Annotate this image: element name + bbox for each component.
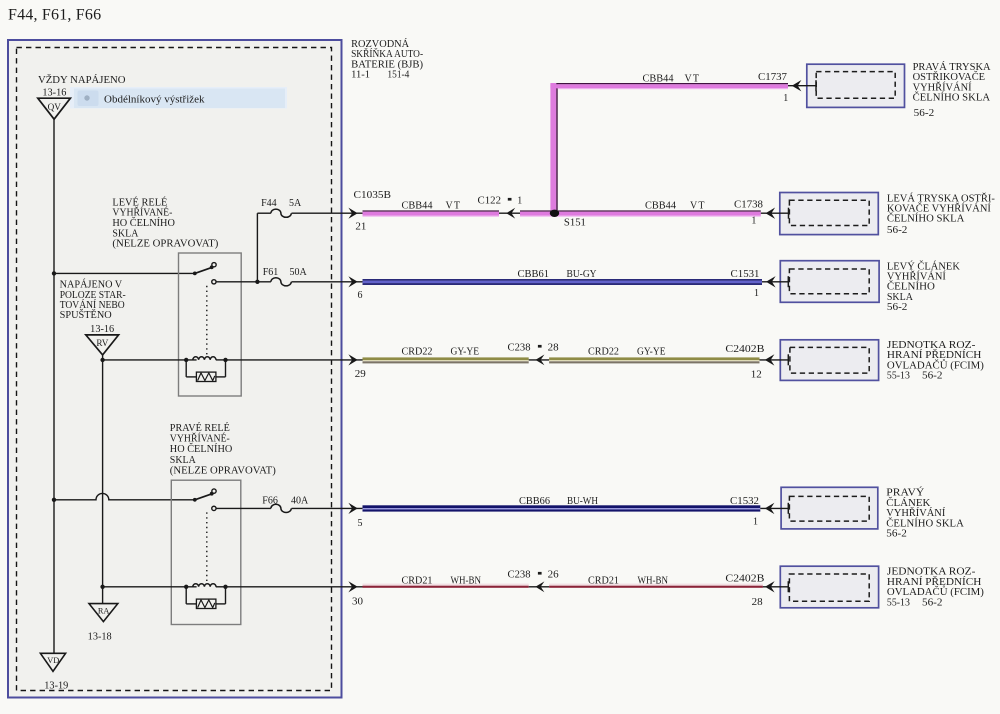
wire CBB44 VT (C122 to C1738) xyxy=(520,210,761,211)
svg-text:56-2: 56-2 xyxy=(922,371,943,382)
svg-text:C1738: C1738 xyxy=(734,200,763,211)
svg-text:PRAVÉ RELÉ: PRAVÉ RELÉ xyxy=(170,422,230,434)
component: right heated glass element box xyxy=(781,487,878,529)
svg-text:CBB61: CBB61 xyxy=(518,269,550,280)
svg-text:BU-GY: BU-GY xyxy=(567,269,597,280)
svg-text:1: 1 xyxy=(753,516,758,527)
wire QV to relay 2 switch (hop over RV vertical) xyxy=(54,493,195,499)
wire CRD22 GY-YE (right) xyxy=(549,357,759,360)
svg-text:Obdélníkový výstřižek: Obdélníkový výstřižek xyxy=(104,93,205,105)
off-page connector QV xyxy=(38,98,71,119)
svg-text:C238: C238 xyxy=(508,570,531,581)
svg-text:F66: F66 xyxy=(262,495,278,506)
component: right washer jet heater box xyxy=(807,64,905,107)
svg-text:C2402B: C2402B xyxy=(725,344,764,355)
svg-text:56-2: 56-2 xyxy=(886,529,907,540)
svg-text:BU-WH: BU-WH xyxy=(567,496,598,507)
svg-text:VYHŘÍVÁNÍ: VYHŘÍVÁNÍ xyxy=(886,507,946,519)
wire F61 to C1531 xyxy=(292,281,364,283)
relay K1 switch xyxy=(193,263,216,284)
svg-text:SKLA: SKLA xyxy=(170,455,197,466)
label BJB (ROZVODNA SKRINKA) xyxy=(351,38,423,81)
component: FCIM box (row6) xyxy=(780,566,878,608)
wire relay2 common output to F66 xyxy=(216,507,271,509)
node: F44/F61 branch xyxy=(255,280,259,284)
label PRAVA TRYSKA xyxy=(913,61,992,119)
off-page connector VD xyxy=(40,653,65,671)
label PRAVE RELE xyxy=(170,422,276,476)
svg-text:50A: 50A xyxy=(290,267,308,278)
svg-text:5A: 5A xyxy=(289,198,302,209)
wire branch up to F44 xyxy=(256,213,258,282)
svg-text:F61: F61 xyxy=(263,267,279,278)
svg-text:VYHŘÍVANÉ-: VYHŘÍVANÉ- xyxy=(170,433,230,445)
svg-text:VT: VT xyxy=(685,73,701,84)
svg-text:ČLÁNEK: ČLÁNEK xyxy=(886,497,931,509)
svg-text:21: 21 xyxy=(355,222,366,233)
svg-text:CRD21: CRD21 xyxy=(402,576,433,587)
svg-text:56-2: 56-2 xyxy=(887,225,908,236)
svg-text:PRAVÝ: PRAVÝ xyxy=(886,487,924,499)
arrow at C238 row6 xyxy=(529,586,549,588)
svg-text:RA: RA xyxy=(98,606,110,615)
relay K2 actuator dotted link xyxy=(206,512,208,582)
relay K2 switch xyxy=(193,489,216,511)
BJB inner dashed border xyxy=(17,48,332,691)
wire CBB44 VT top horizontal to C1737 xyxy=(556,83,788,84)
splice S151 xyxy=(550,210,559,217)
svg-text:12: 12 xyxy=(751,369,762,380)
svg-text:S151: S151 xyxy=(564,217,586,228)
relay K2 coil xyxy=(103,584,228,589)
svg-text:CBB44: CBB44 xyxy=(645,200,676,211)
svg-text:VT: VT xyxy=(446,200,462,211)
svg-text:GY-YE: GY-YE xyxy=(451,346,480,357)
node: QV to relay2 switch xyxy=(52,498,56,502)
wire CBB44 VT (C1035B to C122) xyxy=(363,210,500,211)
svg-text:26: 26 xyxy=(548,570,559,581)
svg-text:29: 29 xyxy=(355,369,366,380)
svg-text:13-16: 13-16 xyxy=(42,87,66,98)
svg-text:56-2: 56-2 xyxy=(914,108,935,119)
svg-text:KOVAČE VYHŘÍVÁNÍ: KOVAČE VYHŘÍVÁNÍ xyxy=(887,203,992,215)
svg-text:55-13: 55-13 xyxy=(887,371,910,382)
svg-text:HRANÍ PŘEDNÍCH: HRANÍ PŘEDNÍCH xyxy=(887,349,982,361)
fuse F66 xyxy=(271,504,291,512)
svg-text:OVLADAČŮ (FCIM): OVLADAČŮ (FCIM) xyxy=(887,358,984,371)
svg-text:VŽDY NAPÁJENO: VŽDY NAPÁJENO xyxy=(38,74,126,86)
component: FCIM box (row4) xyxy=(780,340,878,381)
arrow into left glass element xyxy=(762,281,788,283)
svg-text:HO ČELNÍHO: HO ČELNÍHO xyxy=(170,443,233,455)
svg-text:1: 1 xyxy=(751,215,756,226)
svg-text:SKŘÍŇKA AUTO-: SKŘÍŇKA AUTO- xyxy=(351,48,423,60)
svg-text:VYHŘÍVÁNÍ: VYHŘÍVÁNÍ xyxy=(913,81,973,93)
svg-text:C2402B: C2402B xyxy=(725,573,764,584)
wire relay1 coil to pin 29 xyxy=(226,359,364,361)
relay K2 suppression resistor xyxy=(186,587,225,609)
svg-text:1: 1 xyxy=(517,196,522,207)
arrow at C122 xyxy=(499,212,520,214)
svg-text:CBB44: CBB44 xyxy=(643,73,674,84)
svg-text:30: 30 xyxy=(352,596,363,607)
svg-text:1: 1 xyxy=(783,93,788,104)
svg-text:1: 1 xyxy=(754,288,759,299)
svg-text:56-2: 56-2 xyxy=(922,597,943,608)
arrow into FCIM (row6) xyxy=(763,586,788,588)
node: QV to relay1 switch xyxy=(52,271,56,275)
svg-text:WH-BN: WH-BN xyxy=(638,576,669,587)
node: RV to relay2 coil xyxy=(100,585,104,589)
relay K1 box xyxy=(179,253,242,396)
wire CRD21 WH-BN (right) xyxy=(549,584,763,586)
label JEDNOTKA ROZHRANI (row4) xyxy=(887,340,984,382)
svg-text:13-18: 13-18 xyxy=(88,631,112,642)
svg-text:VD: VD xyxy=(47,656,59,665)
svg-text:C1737: C1737 xyxy=(758,72,787,83)
svg-text:13-19: 13-19 xyxy=(44,681,68,692)
svg-text:5: 5 xyxy=(358,518,363,529)
svg-text:CRD21: CRD21 xyxy=(588,576,619,587)
svg-text:ČELNÍHO: ČELNÍHO xyxy=(887,281,935,293)
svg-text:OSTŘIKOVAČE: OSTŘIKOVAČE xyxy=(913,71,986,83)
arrow out of BJB row6 xyxy=(348,581,357,592)
BJB outer box (solid blue border) xyxy=(8,40,342,698)
svg-text:TOVÁNÍ NEBO: TOVÁNÍ NEBO xyxy=(60,299,125,311)
relay K1 suppression resistor xyxy=(186,360,225,382)
svg-text:CBB44: CBB44 xyxy=(402,200,433,211)
wire relay2 coil to pin 30 xyxy=(226,586,364,588)
svg-text:151-4: 151-4 xyxy=(387,70,409,81)
wire QV to relay 1 switch xyxy=(54,272,195,274)
RV vertical wire down to RA xyxy=(102,360,104,604)
svg-text:F44: F44 xyxy=(261,198,277,209)
wire F44 to C1035B xyxy=(292,212,364,214)
svg-text:CRD22: CRD22 xyxy=(588,346,619,357)
svg-text:RV: RV xyxy=(96,338,108,348)
label LEVE RELE xyxy=(112,196,218,249)
svg-text:C1531: C1531 xyxy=(731,269,760,280)
label PRAVY CLANEK xyxy=(886,487,964,540)
svg-text:C238: C238 xyxy=(508,343,531,354)
svg-text:VYHŘÍVANÉ-: VYHŘÍVANÉ- xyxy=(112,207,172,219)
svg-text:C1035B: C1035B xyxy=(354,190,392,201)
svg-text:HRANÍ PŘEDNÍCH: HRANÍ PŘEDNÍCH xyxy=(887,576,982,588)
wire CRD21 WH-BN (left) xyxy=(363,584,529,586)
svg-text:ČELNÍHO SKLA: ČELNÍHO SKLA xyxy=(913,92,991,104)
svg-text:LEVÉ RELÉ: LEVÉ RELÉ xyxy=(112,196,167,208)
svg-text:LEVÁ TRYSKA OSTŘI-: LEVÁ TRYSKA OSTŘI- xyxy=(887,192,995,204)
wire CBB66 BU-WH xyxy=(363,505,761,508)
svg-text:56-2: 56-2 xyxy=(887,302,908,313)
svg-text:LEVÝ ČLÁNEK: LEVÝ ČLÁNEK xyxy=(887,260,961,272)
wire F66 to C1532 xyxy=(292,507,364,509)
wire relay1 common output xyxy=(216,281,271,283)
svg-text:SPUŠTĚNO: SPUŠTĚNO xyxy=(60,309,112,321)
svg-text:40A: 40A xyxy=(291,495,309,506)
off-page connector RA xyxy=(89,604,118,622)
arrow at C238 row4 xyxy=(529,359,549,361)
svg-text:HO ČELNÍHO: HO ČELNÍHO xyxy=(112,217,174,229)
relay K1 actuator dotted link xyxy=(206,286,208,355)
component: left heated glass element box xyxy=(780,261,879,303)
arrow into left washer jet xyxy=(761,212,789,214)
off-page connector RV xyxy=(86,335,119,355)
svg-text:CRD22: CRD22 xyxy=(402,346,433,357)
component: left washer jet heater box xyxy=(780,193,879,235)
arrow into FCIM (row4) xyxy=(760,359,789,361)
svg-text:55-13: 55-13 xyxy=(887,597,910,608)
tooltip overlay (snipping artifact) xyxy=(70,87,287,109)
label LEVY CLANEK xyxy=(887,260,961,313)
svg-text:VT: VT xyxy=(690,200,706,211)
svg-text:28: 28 xyxy=(752,597,763,608)
svg-text:6: 6 xyxy=(358,290,363,301)
svg-text:VYHŘÍVÁNÍ: VYHŘÍVÁNÍ xyxy=(887,271,947,283)
arrow out of BJB row4 xyxy=(348,354,357,365)
svg-text:C1532: C1532 xyxy=(730,496,759,507)
arrow into right glass element xyxy=(760,507,788,509)
svg-text:(NELZE OPRAVOVAT): (NELZE OPRAVOVAT) xyxy=(112,239,218,250)
relay K2 box xyxy=(171,480,241,624)
svg-text:ČELNÍHO SKLA: ČELNÍHO SKLA xyxy=(886,517,964,529)
svg-text:CBB66: CBB66 xyxy=(519,496,550,507)
svg-text:PRAVÁ TRYSKA: PRAVÁ TRYSKA xyxy=(913,61,992,73)
svg-text:OVLADAČŮ (FCIM): OVLADAČŮ (FCIM) xyxy=(887,585,984,598)
svg-text:QV: QV xyxy=(48,102,62,112)
arrow into right washer jet xyxy=(788,85,816,87)
arrow out of BJB row3 xyxy=(348,276,357,287)
label LEVA TRYSKA xyxy=(887,192,995,236)
svg-text:ROZVODNÁ: ROZVODNÁ xyxy=(351,38,410,50)
svg-text:(NELZE OPRAVOVAT): (NELZE OPRAVOVAT) xyxy=(170,465,276,476)
wire CRD22 GY-YE (left) xyxy=(363,357,529,360)
fuse F61 xyxy=(271,278,291,286)
node: RV junction xyxy=(100,358,104,362)
fuse F44 xyxy=(271,209,291,217)
label JEDNOTKA ROZHRANI (row6) xyxy=(887,567,984,609)
arrow out of BJB row2 xyxy=(348,208,357,219)
main vertical wire from QV xyxy=(53,119,55,653)
svg-text:13-16: 13-16 xyxy=(90,324,114,335)
svg-text:WH-BN: WH-BN xyxy=(451,576,482,587)
svg-text:C122: C122 xyxy=(478,196,502,207)
wire CBB61 BU-GY xyxy=(363,279,763,281)
label NAPAJENO V POLOZE xyxy=(60,279,126,322)
svg-text:11-1: 11-1 xyxy=(351,70,370,81)
relay K1 coil xyxy=(103,357,228,362)
wire CBB44 VT vertical from S151 up xyxy=(550,83,556,210)
arrow out of BJB row5 xyxy=(348,503,357,514)
svg-text:28: 28 xyxy=(548,343,559,354)
svg-text:F44, F61, F66: F44, F61, F66 xyxy=(8,7,101,24)
svg-text:GY-YE: GY-YE xyxy=(637,346,666,357)
svg-text:NAPÁJENO V: NAPÁJENO V xyxy=(60,279,123,291)
svg-text:ČELNÍHO SKLA: ČELNÍHO SKLA xyxy=(887,213,965,225)
